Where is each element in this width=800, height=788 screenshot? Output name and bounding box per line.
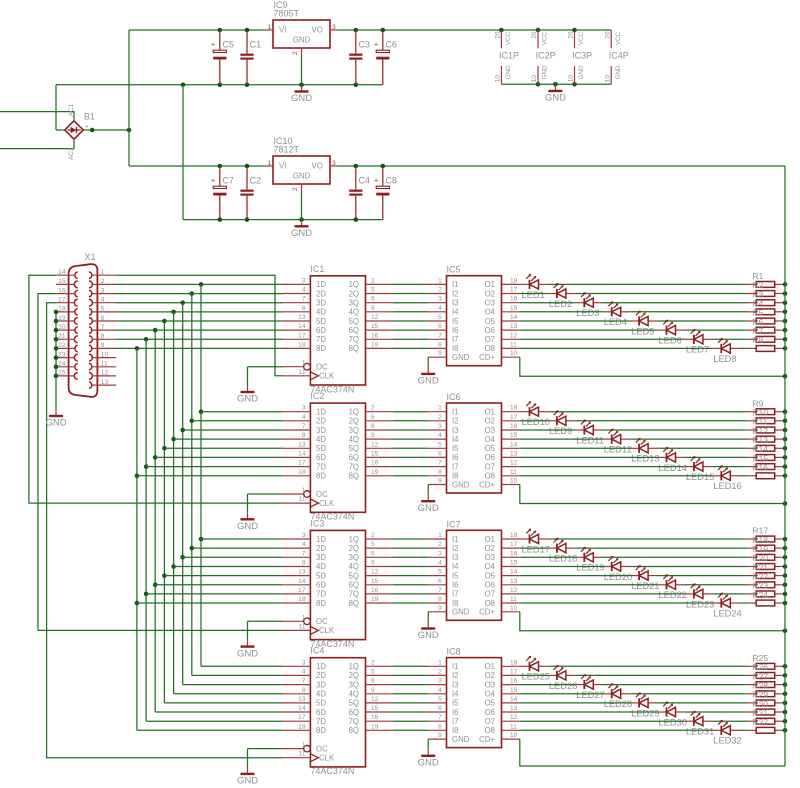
- junction R30 on bus: [783, 710, 788, 715]
- svg-text:12: 12: [101, 370, 109, 377]
- wire LED5 to resistor R5: [657, 320, 747, 322]
- wire resistor R29 to 12V bus: [784, 702, 785, 704]
- svg-text:O4: O4: [485, 308, 496, 317]
- svg-text:8D: 8D: [316, 599, 326, 608]
- svg-text:GND: GND: [452, 353, 470, 362]
- svg-text:O1: O1: [485, 662, 495, 671]
- svg-text:O3: O3: [485, 426, 495, 435]
- wire data D1 from X1 pin 2 to IC1 1D: [116, 283, 283, 285]
- wire IC1 8Q to IC5 I8: [393, 347, 428, 349]
- wire LED29 to resistor R29: [657, 702, 747, 704]
- junction R25 on bus: [783, 664, 788, 669]
- svg-text:5D: 5D: [316, 444, 326, 453]
- resistor R21: [747, 562, 784, 578]
- wire IC4 6Q to IC8 I6: [393, 711, 428, 713]
- svg-text:2D: 2D: [316, 289, 326, 298]
- resistor R24: [747, 590, 784, 606]
- svg-text:18: 18: [58, 306, 66, 313]
- svg-text:CD+: CD+: [479, 735, 495, 744]
- svg-text:4: 4: [302, 414, 306, 421]
- svg-text:GND: GND: [45, 418, 66, 429]
- junction R13 on bus: [783, 446, 788, 451]
- svg-text:8D: 8D: [316, 344, 326, 353]
- svg-text:10: 10: [510, 478, 518, 485]
- wire IC2 4Q to IC6 I4: [393, 438, 428, 440]
- wire IC6 O5 to LED13: [520, 447, 630, 449]
- svg-text:I5: I5: [452, 699, 459, 708]
- svg-text:15: 15: [371, 578, 379, 585]
- svg-text:1D: 1D: [316, 280, 326, 289]
- wire resistor R1 to 12V bus: [784, 283, 785, 285]
- svg-text:13: 13: [510, 450, 518, 457]
- bridge rectifier B1: [60, 103, 96, 160]
- wire resistor R12 to 12V bus: [784, 438, 785, 440]
- svg-text:8D: 8D: [316, 472, 326, 481]
- svg-text:CD+: CD+: [479, 480, 495, 489]
- wire IC8 CD+ to 12V bus: [520, 739, 785, 766]
- svg-text:I8: I8: [452, 726, 459, 735]
- junction D4 at IC2: [171, 437, 176, 442]
- wire LED30 to resistor R30: [685, 711, 747, 713]
- svg-text:O7: O7: [485, 335, 495, 344]
- LED LED27: [575, 674, 605, 700]
- svg-text:20: 20: [531, 31, 538, 39]
- wire IC4 1Q to IC8 I1: [393, 665, 428, 667]
- svg-text:2: 2: [292, 187, 299, 191]
- svg-text:LED28: LED28: [604, 699, 632, 709]
- junction IC5 CD+ on bus: [783, 374, 788, 379]
- svg-text:3D: 3D: [316, 680, 326, 689]
- svg-text:10: 10: [568, 75, 575, 83]
- junction R29 on bus: [783, 701, 788, 706]
- svg-text:5: 5: [371, 668, 375, 675]
- LED LED21: [630, 565, 660, 591]
- svg-text:I2: I2: [452, 671, 459, 680]
- svg-text:O4: O4: [485, 562, 496, 571]
- svg-text:LED4: LED4: [604, 317, 627, 327]
- svg-text:1: 1: [438, 405, 442, 412]
- junction X1 pin 22 on gnd net: [54, 346, 59, 351]
- svg-text:LED19: LED19: [576, 563, 604, 573]
- junction IC2P GND: [536, 82, 541, 87]
- svg-text:IC3: IC3: [310, 518, 324, 528]
- svg-text:LED31: LED31: [686, 727, 714, 737]
- wire LED9 to resistor R10: [575, 420, 747, 422]
- wire IC2 3Q to IC6 I3: [393, 429, 428, 431]
- svg-text:LED20: LED20: [604, 572, 632, 582]
- svg-text:IC1: IC1: [310, 264, 324, 274]
- wire AC1 input from left edge to bridge B1 AC1 pin: [0, 112, 74, 122]
- svg-text:VO: VO: [312, 162, 323, 171]
- wire AC2 input from left edge to bridge B1 AC2 pin: [0, 139, 74, 149]
- svg-text:LED5: LED5: [631, 326, 654, 336]
- svg-text:I2: I2: [452, 417, 459, 426]
- svg-text:10: 10: [510, 732, 518, 739]
- svg-text:4: 4: [101, 297, 105, 304]
- wire data D8 column down to IC4: [136, 348, 138, 730]
- svg-text:I3: I3: [452, 299, 459, 308]
- resistor R29: [747, 690, 784, 706]
- wire IC3 OC to ground: [248, 621, 284, 640]
- junction D1 at IC3: [199, 537, 204, 542]
- X1 pin numbers 14-25: [58, 269, 66, 377]
- wire IC2 7Q to IC6 I7: [393, 466, 428, 468]
- svg-text:-: -: [60, 123, 62, 130]
- wire data D7 column down to IC4: [145, 339, 147, 721]
- wire IC5 O6 to LED6: [520, 329, 658, 331]
- svg-text:O8: O8: [485, 344, 495, 353]
- svg-text:I8: I8: [452, 344, 459, 353]
- resistor R19: [747, 544, 784, 560]
- svg-text:2D: 2D: [316, 544, 326, 553]
- svg-text:8Q: 8Q: [349, 344, 359, 353]
- junction X1 pin 24 on gnd net: [54, 365, 59, 370]
- svg-text:9: 9: [371, 687, 375, 694]
- svg-text:10: 10: [531, 75, 538, 83]
- LED LED15: [685, 456, 715, 482]
- svg-text:3Q: 3Q: [349, 680, 359, 689]
- resistor R22: [747, 572, 784, 588]
- svg-text:3: 3: [302, 659, 306, 666]
- ground symbol below X1: [45, 410, 66, 429]
- svg-text:O3: O3: [485, 553, 495, 562]
- svg-text:3: 3: [438, 423, 442, 430]
- junction IC9 GND on upper GND rail: [299, 83, 304, 88]
- svg-text:OC: OC: [316, 744, 328, 753]
- svg-text:IC8: IC8: [447, 647, 461, 657]
- svg-text:GND: GND: [505, 65, 512, 79]
- svg-text:8Q: 8Q: [349, 726, 359, 735]
- capacitor C5: [211, 30, 234, 85]
- junction R15 on bus: [783, 464, 788, 469]
- svg-text:13: 13: [510, 705, 518, 712]
- svg-text:6D: 6D: [316, 581, 326, 590]
- resistor R15: [747, 453, 784, 469]
- svg-text:3: 3: [302, 532, 306, 539]
- svg-text:6Q: 6Q: [349, 453, 359, 462]
- wire LED15 to resistor R15: [712, 466, 747, 468]
- resistor R10: [747, 408, 784, 424]
- junction C6 on 5V rail: [381, 28, 386, 33]
- wire data D7 branch to IC3 7D: [146, 593, 283, 595]
- wire IC1 6Q to IC5 I6: [393, 329, 428, 331]
- svg-text:11: 11: [299, 751, 306, 758]
- svg-text:5D: 5D: [316, 317, 326, 326]
- svg-text:LED16: LED16: [713, 481, 741, 491]
- svg-text:O8: O8: [485, 599, 495, 608]
- wire data D7 from X1 pin 8 to IC1 7D: [116, 338, 283, 340]
- svg-text:25: 25: [58, 370, 66, 377]
- svg-text:18: 18: [298, 341, 306, 348]
- svg-text:6: 6: [438, 450, 442, 457]
- junction R24 on bus: [783, 601, 788, 606]
- svg-text:IC1P: IC1P: [499, 51, 519, 61]
- svg-text:5: 5: [371, 287, 375, 294]
- svg-text:GND: GND: [293, 36, 311, 45]
- wire IC2 6Q to IC6 I6: [393, 456, 428, 458]
- resistor R31: [747, 708, 784, 724]
- svg-text:GND: GND: [542, 65, 549, 79]
- wire GND riser x=183 between gnd rails: [182, 85, 184, 220]
- svg-text:15: 15: [510, 305, 518, 312]
- svg-text:LED14: LED14: [659, 463, 687, 473]
- svg-text:I4: I4: [452, 562, 459, 571]
- svg-text:LED32: LED32: [713, 736, 741, 746]
- svg-text:LED21: LED21: [631, 581, 659, 591]
- svg-text:X1: X1: [85, 252, 96, 262]
- svg-text:22: 22: [58, 342, 66, 349]
- svg-text:3: 3: [101, 287, 105, 294]
- wire resistor R26 to 12V bus: [784, 674, 785, 676]
- svg-text:2D: 2D: [316, 671, 326, 680]
- wire 5V rail from IC9 VO to IC4P VCC: [338, 29, 611, 31]
- wire IC8 O3 to LED27: [520, 684, 575, 686]
- capacitor C4: [349, 166, 370, 220]
- svg-text:C1: C1: [250, 40, 262, 50]
- svg-text:AC2: AC2: [68, 147, 75, 160]
- svg-text:12: 12: [371, 696, 379, 703]
- LED LED20: [603, 556, 633, 582]
- connector X1 (DB25): [56, 252, 116, 397]
- svg-text:6: 6: [371, 550, 375, 557]
- junction C5 on upper GND rail: [218, 83, 223, 88]
- svg-text:R16: R16: [752, 462, 768, 472]
- svg-text:8: 8: [101, 333, 105, 340]
- svg-text:C4: C4: [358, 176, 370, 186]
- svg-text:11: 11: [299, 623, 306, 630]
- wire IC4 5Q to IC8 I5: [393, 702, 428, 704]
- svg-text:R24: R24: [752, 590, 768, 600]
- junction R1 on bus: [783, 282, 788, 287]
- wire IC6 O4 to LED12: [520, 438, 603, 440]
- junction C3 on 5V rail: [354, 28, 359, 33]
- resistor R1: [747, 271, 784, 287]
- wire IC4 7Q to IC8 I7: [393, 720, 428, 722]
- junction C2 on lower GND rail: [245, 217, 250, 222]
- voltage regulator IC10 7812T: [265, 136, 338, 193]
- wire IC1 1Q to IC5 I1: [393, 283, 428, 285]
- wire LED4 to resistor R4: [630, 311, 747, 313]
- wire IC3 5Q to IC7 I5: [393, 575, 428, 577]
- svg-text:B1: B1: [84, 112, 95, 122]
- svg-text:8: 8: [438, 596, 442, 603]
- wire resistor R20 to 12V bus: [784, 566, 785, 568]
- junction R16 on bus: [783, 474, 788, 479]
- junction X1 pin 23 on gnd net: [54, 355, 59, 360]
- svg-text:9: 9: [438, 732, 442, 739]
- svg-text:I8: I8: [452, 472, 459, 481]
- svg-text:O2: O2: [485, 289, 495, 298]
- svg-text:LED25: LED25: [522, 672, 550, 682]
- ground symbol for IC8: [418, 749, 439, 768]
- wire LED25 to resistor R25: [548, 665, 747, 667]
- svg-text:4: 4: [302, 541, 306, 548]
- svg-text:I2: I2: [452, 289, 459, 298]
- svg-text:2: 2: [438, 414, 442, 421]
- junction power-pin ground symbol: [553, 82, 558, 87]
- svg-text:1: 1: [302, 360, 306, 367]
- wire IC2 8Q to IC6 I8: [393, 475, 428, 477]
- svg-text:1Q: 1Q: [349, 535, 359, 544]
- wire data D7 branch to IC2 7D: [146, 466, 283, 468]
- svg-text:19: 19: [371, 469, 379, 476]
- wire data D5 branch to IC4 5D: [164, 702, 283, 704]
- svg-text:I6: I6: [452, 708, 459, 717]
- resistor R6: [747, 317, 784, 333]
- svg-text:I8: I8: [452, 599, 459, 608]
- wire data D7 branch to IC4 7D: [146, 720, 283, 722]
- junction D7 at IC2: [144, 464, 149, 469]
- wire LED27 to resistor R27: [603, 684, 748, 686]
- svg-text:GND: GND: [237, 776, 258, 787]
- wire IC7 O2 to LED18: [520, 547, 548, 549]
- junction IC3P GND: [572, 82, 577, 87]
- svg-text:C5: C5: [222, 40, 234, 50]
- svg-text:5Q: 5Q: [349, 699, 359, 708]
- LED LED26: [548, 665, 578, 691]
- svg-text:11: 11: [299, 369, 306, 376]
- svg-text:VI: VI: [279, 26, 286, 35]
- wire IC1 2Q to IC5 I2: [393, 293, 428, 295]
- svg-text:LED8: LED8: [713, 354, 736, 364]
- junction D1 column tap: [199, 282, 204, 287]
- LED LED31: [685, 711, 715, 737]
- junction R14 on bus: [783, 455, 788, 460]
- wire data D3 from X1 pin 4 to IC1 3D: [116, 302, 283, 304]
- svg-text:GND: GND: [418, 758, 439, 769]
- junction X1 pin 18 on gnd net: [54, 310, 59, 315]
- svg-text:7: 7: [438, 460, 442, 467]
- LED LED23: [685, 583, 715, 609]
- svg-text:19: 19: [58, 315, 66, 322]
- resistor R23: [747, 581, 784, 597]
- voltage regulator IC9 7805T: [265, 0, 338, 57]
- wire data D5 branch to IC2 5D: [164, 447, 283, 449]
- ground symbol for IC4 OC: [237, 767, 258, 786]
- svg-text:2Q: 2Q: [349, 671, 359, 680]
- svg-text:1Q: 1Q: [349, 408, 359, 417]
- svg-text:8Q: 8Q: [349, 599, 359, 608]
- capacitor C1: [240, 30, 261, 85]
- junction D5 at IC3: [162, 573, 167, 578]
- svg-text:LED2: LED2: [549, 299, 572, 309]
- wire resistor R17 to 12V bus: [784, 538, 785, 540]
- svg-text:LED12: LED12: [604, 445, 632, 455]
- svg-text:5D: 5D: [316, 571, 326, 580]
- wire IC2 5Q to IC6 I5: [393, 447, 428, 449]
- wire resistor R10 to 12V bus: [784, 420, 785, 422]
- ground symbol below power pins: [545, 85, 566, 104]
- junction R28 on bus: [783, 692, 788, 697]
- svg-text:3Q: 3Q: [349, 426, 359, 435]
- wire LED2 to resistor R2: [575, 293, 747, 295]
- wire LED17 to resistor R17: [548, 538, 747, 540]
- svg-text:11: 11: [510, 469, 517, 476]
- wire LED10 to resistor R9: [548, 411, 747, 413]
- wire unregulated rail to IC9 VI: [129, 29, 265, 31]
- svg-text:2: 2: [438, 668, 442, 675]
- svg-text:6D: 6D: [316, 326, 326, 335]
- wire IC6 CD+ to 12V bus: [520, 485, 785, 504]
- svg-text:5: 5: [438, 314, 442, 321]
- LED LED10: [520, 401, 550, 427]
- wire data D2 branch to IC3 2D: [192, 547, 283, 549]
- svg-text:7Q: 7Q: [349, 462, 359, 471]
- svg-text:2: 2: [438, 287, 442, 294]
- wire data D4 branch to IC2 4D: [174, 438, 284, 440]
- svg-text:LED11: LED11: [576, 435, 604, 445]
- svg-text:7805T: 7805T: [274, 8, 300, 18]
- svg-text:18: 18: [510, 659, 518, 666]
- LED LED17: [520, 528, 550, 554]
- wire data D1 branch to IC4 1D: [201, 665, 283, 667]
- junction IC6 CD+ on bus: [783, 501, 788, 506]
- svg-text:GND: GND: [418, 503, 439, 514]
- wire resistor R2 to 12V bus: [784, 293, 785, 295]
- svg-text:I6: I6: [452, 326, 459, 335]
- junction R21 on bus: [783, 573, 788, 578]
- junction R6 on bus: [783, 328, 788, 333]
- svg-text:18: 18: [298, 596, 306, 603]
- wire 12V output rail from IC10 VO to right bus: [338, 165, 785, 167]
- svg-text:15: 15: [510, 687, 518, 694]
- wire IC7 O7 to LED23: [520, 593, 685, 595]
- wire LED3 to resistor R3: [603, 302, 748, 304]
- junction C4 on 12V rail: [354, 164, 359, 169]
- svg-text:I7: I7: [452, 462, 459, 471]
- svg-text:2Q: 2Q: [349, 544, 359, 553]
- svg-text:O5: O5: [485, 571, 496, 580]
- svg-text:3: 3: [438, 550, 442, 557]
- svg-text:GND: GND: [615, 65, 622, 79]
- svg-text:O1: O1: [485, 535, 495, 544]
- svg-text:9: 9: [438, 478, 442, 485]
- LED LED24: [712, 592, 742, 618]
- latch IC2 74AC374N: [283, 391, 393, 521]
- LED LED3: [575, 292, 602, 318]
- svg-text:GND: GND: [418, 630, 439, 641]
- svg-text:6: 6: [371, 296, 375, 303]
- svg-text:14: 14: [298, 323, 306, 330]
- svg-text:18: 18: [510, 277, 518, 284]
- svg-text:6: 6: [438, 705, 442, 712]
- LED LED8: [712, 338, 739, 364]
- svg-text:O3: O3: [485, 680, 495, 689]
- junction R27 on bus: [783, 682, 788, 687]
- svg-text:O7: O7: [485, 717, 495, 726]
- ground symbol for IC7: [418, 622, 439, 641]
- resistor R26: [747, 662, 784, 678]
- resistor R32: [747, 717, 784, 733]
- junction D8 column tap: [135, 346, 140, 351]
- svg-text:5: 5: [101, 306, 105, 313]
- wire IC7 GND to ground: [427, 612, 429, 622]
- svg-text:I7: I7: [452, 717, 459, 726]
- wire resistor R27 to 12V bus: [784, 684, 785, 686]
- svg-text:1: 1: [302, 742, 306, 749]
- svg-text:17: 17: [298, 460, 306, 467]
- wire IC3 8Q to IC7 I8: [393, 602, 428, 604]
- wire upper GND rail: [56, 84, 383, 86]
- wire IC3 4Q to IC7 I4: [393, 566, 428, 568]
- wire LED20 to resistor R20: [630, 566, 747, 568]
- wire IC5 O4 to LED4: [520, 311, 603, 313]
- svg-text:2: 2: [371, 532, 375, 539]
- svg-text:+: +: [374, 177, 378, 184]
- svg-text:14: 14: [298, 450, 306, 457]
- svg-text:I4: I4: [452, 435, 459, 444]
- svg-text:20: 20: [568, 31, 575, 39]
